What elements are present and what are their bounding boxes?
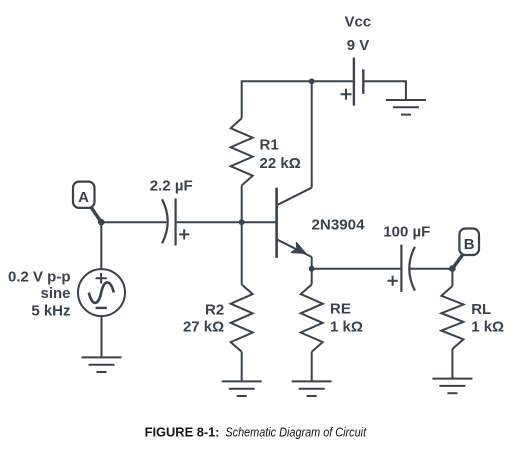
svg-text:27 kΩ: 27 kΩ [183,318,224,335]
svg-text:FIGURE 8-1:Schematic Diagram o: FIGURE 8-1:Schematic Diagram of Circuit [145,426,367,440]
transistor Q1 2N3904 [277,188,312,269]
node B callout [452,229,479,269]
capacitor C2 100uF [388,245,415,292]
ground (RE) [292,381,332,396]
wire collector riser [311,81,313,187]
wire RL to ground [451,349,453,379]
resistor RL [441,286,463,349]
junction base node [239,219,245,225]
svg-text:22 kΩ: 22 kΩ [260,155,301,172]
wire battery to ground [365,81,406,100]
junction node B [449,265,456,272]
svg-text:2.2 µF: 2.2 µF [150,177,193,194]
svg-text:RE: RE [330,300,351,317]
junction emitter node [309,266,315,272]
svg-text:R1: R1 [260,137,279,154]
wire capacitor C1 to base [177,221,277,223]
svg-text:5 kHz: 5 kHz [31,303,70,320]
wire capacitor C2 to node B [410,268,452,270]
source V2 sine [78,269,125,316]
ground (R2) [222,381,262,396]
battery V1 [341,58,364,106]
wire R1 bottom to base node [241,186,243,223]
junction node A [98,219,105,226]
wire top rail (R1 top to battery +) [242,81,353,118]
svg-text:9 V: 9 V [347,37,370,54]
svg-text:Vcc: Vcc [344,14,371,31]
svg-text:1 kΩ: 1 kΩ [471,318,504,335]
resistor RE [301,285,323,352]
svg-text:100 µF: 100 µF [383,223,430,240]
wire base node to R2 [241,222,243,284]
svg-text:2N3904: 2N3904 [312,217,366,234]
svg-text:RL: RL [471,301,491,318]
svg-text:R2: R2 [205,302,224,319]
wire node A to source [100,222,102,269]
wire emitter node to RE [311,269,313,285]
wire node A to capacitor C1 [101,221,166,223]
svg-text:B: B [464,236,475,253]
capacitor C1 2.2uF [162,199,189,246]
ground (battery) [386,100,426,115]
resistor R1 [231,118,253,185]
ground (RL) [432,379,472,394]
wire R2 to ground [241,352,243,382]
svg-text:0.2 V p-p: 0.2 V p-p [8,268,71,285]
ground (source) [82,357,122,372]
resistor R2 [231,285,253,352]
wire emitter node to capacitor C2 [312,268,401,270]
wire node B to RL [451,269,453,286]
junction collector-rail [309,78,315,84]
svg-text:sine: sine [40,285,70,302]
wire RE to ground [311,352,313,382]
wire source to ground [101,316,103,357]
svg-text:A: A [78,189,89,206]
node A callout [73,182,101,223]
svg-text:1 kΩ: 1 kΩ [330,318,363,335]
label 0.2 V p-p sine 5 kHz [8,268,71,319]
